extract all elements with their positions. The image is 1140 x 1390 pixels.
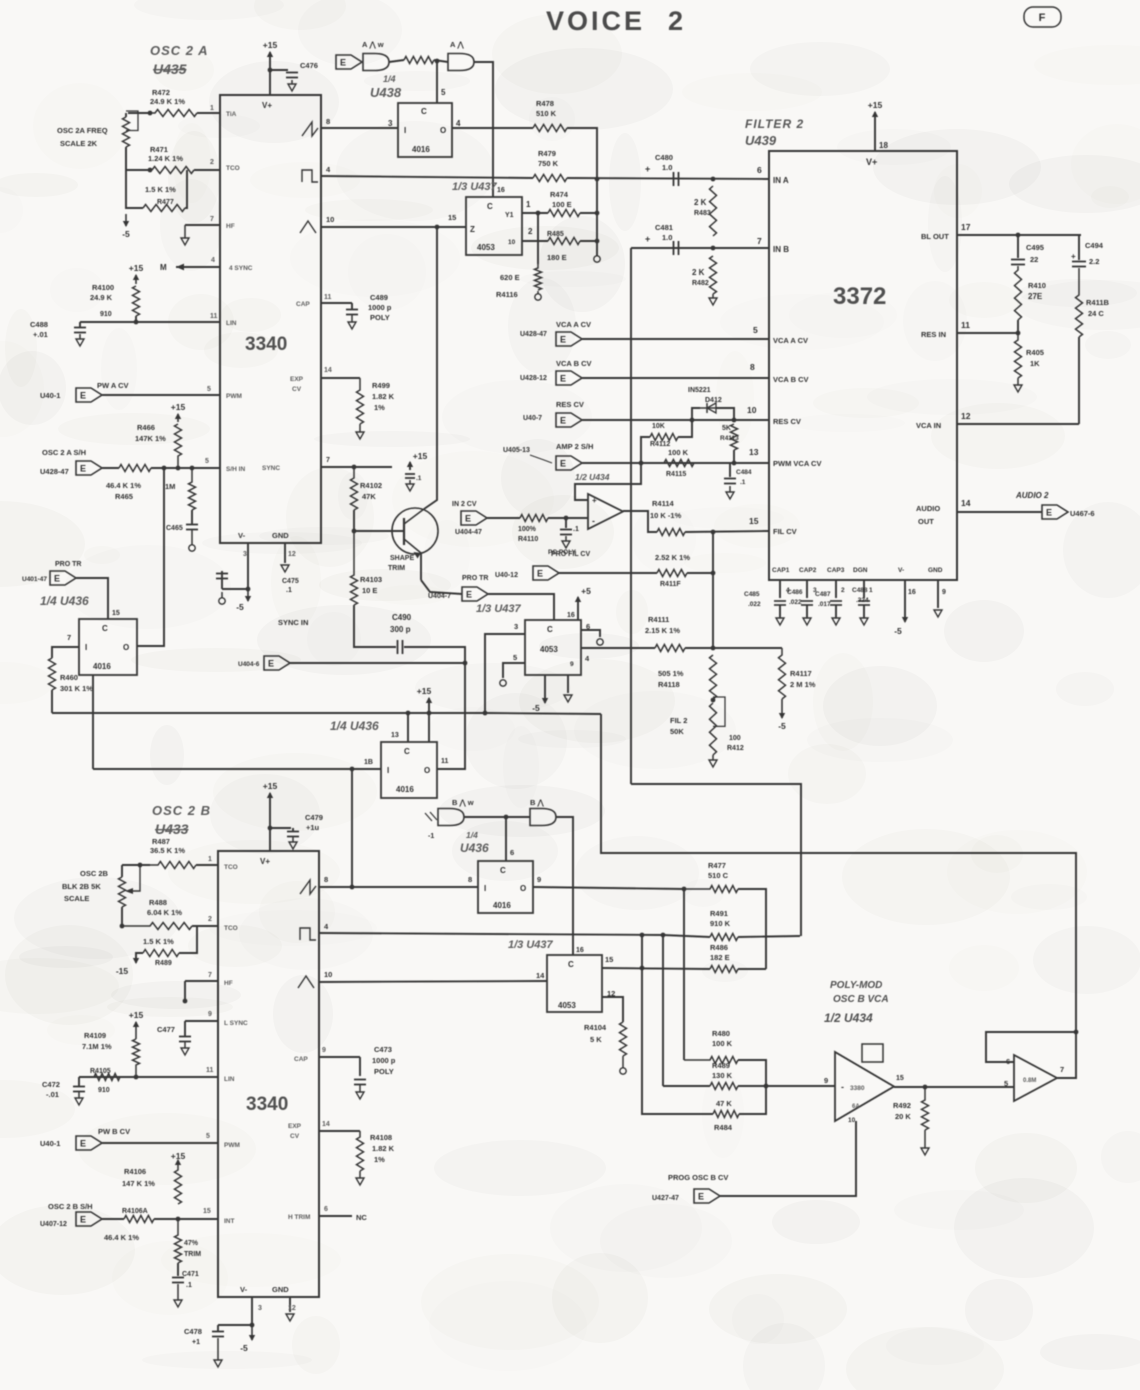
svg-text:4: 4 (786, 587, 790, 594)
svg-text:R4106: R4106 (124, 1167, 146, 1176)
svg-text:PRO TR: PRO TR (462, 575, 488, 582)
svg-text:E: E (560, 374, 566, 384)
wire 4053b out (581, 647, 655, 649)
sawtooth glyph b (300, 880, 316, 894)
svg-text:R480: R480 (712, 1029, 730, 1038)
label 1/4 U438 a (383, 74, 396, 84)
wire IN A line (567, 178, 769, 179)
label C476 (300, 61, 318, 70)
label R4105 value (98, 1087, 110, 1094)
wire 3372 Vminus pin (904, 580, 906, 618)
wire R4102 bottom (353, 510, 355, 531)
junction gate cd (504, 815, 509, 820)
wire V- b to C478 (218, 1324, 252, 1326)
svg-text:RES CV: RES CV (773, 417, 801, 426)
connector PW B CV (76, 1136, 102, 1150)
label R4103 (360, 575, 382, 584)
svg-text:U40-7: U40-7 (523, 415, 542, 422)
svg-text:2.15 K 1%: 2.15 K 1% (645, 626, 680, 635)
svg-text:R4104: R4104 (584, 1023, 607, 1032)
svg-text:EXP: EXP (288, 1123, 302, 1130)
svg-text:1/2 U434: 1/2 U434 (575, 472, 610, 482)
svg-text:C478: C478 (184, 1327, 202, 1336)
svg-text:.1: .1 (740, 479, 746, 486)
svg-text:5K: 5K (722, 425, 731, 432)
label FILTER 2 (745, 117, 804, 131)
label AUDIO 2 (1015, 491, 1049, 500)
svg-text:18: 18 (879, 141, 888, 150)
label PW B CV (98, 1127, 130, 1136)
svg-text:1.5 K 1%: 1.5 K 1% (143, 937, 174, 946)
label C494 (1085, 241, 1104, 250)
svg-text:S/H IN: S/H IN (226, 466, 245, 473)
wire trimpot bottom to TCO row (126, 147, 150, 170)
svg-text:3380: 3380 (850, 1085, 865, 1092)
svg-text:U433: U433 (155, 821, 189, 837)
label R4114 (652, 499, 675, 508)
wire diode loop (692, 408, 700, 420)
svg-text:C479: C479 (305, 813, 323, 822)
svg-text:PRO FIL CV: PRO FIL CV (551, 551, 590, 558)
wire audio out (957, 511, 1042, 513)
pin 14 4053c (536, 971, 545, 980)
wire to C476 (270, 69, 288, 71)
ground below C485 (776, 618, 784, 625)
wire opamp1 out (894, 1086, 1014, 1088)
pin 11 of U433 (206, 1067, 214, 1074)
label NC (356, 1213, 367, 1222)
pin 7 U436a (67, 633, 71, 642)
label R492 value (895, 1112, 911, 1121)
wire S/H b lead (102, 1218, 124, 1220)
svg-text:VOICE: VOICE (546, 6, 645, 36)
pin 4 4053b (585, 654, 590, 663)
svg-text:9: 9 (208, 1011, 212, 1018)
wire R471 to pin2 (194, 169, 220, 171)
wire 4053b pin6 stub (581, 630, 600, 637)
label R412 value (729, 735, 741, 742)
svg-text:OSC B VCA: OSC B VCA (833, 994, 889, 1005)
svg-text:R482: R482 (692, 280, 709, 287)
svg-text:R484: R484 (714, 1123, 733, 1132)
wire R487 left leg (122, 864, 150, 866)
wire follower out (623, 511, 657, 532)
svg-text:5: 5 (441, 88, 446, 97)
svg-text:10K: 10K (652, 423, 665, 430)
resistor R488b (122, 923, 192, 930)
capacitor C488 (74, 328, 86, 333)
pin 3 of U433 (258, 1305, 262, 1312)
svg-text:OUT: OUT (918, 517, 934, 526)
capacitor C477 (179, 1037, 191, 1042)
svg-text:12: 12 (961, 411, 971, 421)
svg-text:4: 4 (211, 257, 215, 264)
label PW A CV (97, 381, 129, 390)
label C478 (184, 1327, 202, 1336)
capacitor C465 (186, 525, 198, 530)
svg-text:U40-12: U40-12 (495, 572, 518, 579)
svg-text:U428-47: U428-47 (40, 467, 69, 476)
resistor R475 (404, 57, 434, 64)
connector PRO FIL CV (533, 566, 559, 580)
ground 4053b pin5 (500, 680, 506, 686)
resistor R460 (49, 658, 56, 690)
label R4117 (790, 669, 812, 678)
svg-text:24 C: 24 C (1088, 309, 1104, 318)
label C494 plus (1071, 252, 1076, 261)
svg-text:4016: 4016 (93, 662, 111, 671)
label C495 (1026, 243, 1044, 252)
wire R489b left (136, 953, 143, 960)
wire PW A CV (102, 394, 220, 396)
wire CAP b pin (319, 1056, 360, 1058)
svg-text:R410: R410 (1028, 281, 1046, 290)
label R460 (60, 673, 78, 682)
svg-text:VCA B CV: VCA B CV (773, 375, 809, 384)
wire HF b stub (184, 981, 186, 999)
pin 13 U436b (391, 732, 399, 739)
junction 573 (711, 571, 716, 576)
ground below C483 (562, 536, 570, 548)
svg-text:PW B CV: PW B CV (98, 1127, 130, 1136)
ground below C488 (76, 334, 84, 346)
svg-text:15: 15 (112, 610, 120, 617)
label R485 (547, 231, 564, 238)
label R484 (714, 1123, 733, 1132)
power +15 above R4106 (171, 1151, 186, 1165)
label SHAPE (390, 555, 414, 562)
svg-text:17: 17 (961, 222, 971, 232)
wire poly route down (631, 784, 801, 936)
label C481 plus (645, 234, 650, 244)
svg-text:I: I (484, 884, 486, 893)
wire R4117b to node (687, 572, 713, 574)
pin 11 (961, 320, 970, 330)
svg-text:910: 910 (98, 1087, 110, 1094)
capacitor C488b (858, 601, 870, 605)
svg-text:R477: R477 (157, 199, 174, 206)
pin 5 S/H (205, 458, 209, 465)
resistor R4117b (657, 570, 687, 577)
wire to opamp1 (738, 1085, 835, 1087)
pin4 label (786, 587, 790, 594)
wire follower fb (575, 463, 641, 500)
wire GND pin down (284, 543, 286, 563)
label OSC 2B S/H (48, 1202, 93, 1211)
label B saw 2 (530, 798, 545, 807)
label 1/2 U434 (824, 1011, 873, 1025)
wire IN B vertical (630, 248, 632, 784)
svg-text:A ⋀ w: A ⋀ w (362, 40, 384, 49)
svg-text:10: 10 (747, 405, 757, 415)
svg-text:E: E (80, 1139, 86, 1149)
ground c482 (406, 480, 414, 491)
label osc2b scale b (62, 882, 101, 891)
svg-text:14: 14 (322, 1121, 330, 1128)
wire square b line (319, 933, 663, 935)
svg-text:7: 7 (208, 972, 212, 979)
label C489 (370, 293, 388, 302)
capacitor C472 (73, 1087, 85, 1092)
svg-text:PW A CV: PW A CV (97, 381, 129, 390)
svg-text:PROG OSC B CV: PROG OSC B CV (668, 1173, 728, 1182)
junction R4109 LIN (134, 1075, 139, 1080)
pin 7 of U433 (208, 972, 212, 979)
junction TCO2 row (120, 924, 125, 929)
label R4100 (92, 283, 114, 292)
label R479 value (538, 159, 559, 168)
junction amp sh b (732, 461, 737, 466)
wire R488b to pin2 (192, 925, 218, 927)
svg-text:-: - (841, 1082, 844, 1092)
svg-text:+15: +15 (129, 263, 144, 273)
wire R474 to node (580, 212, 597, 214)
ground at GND b (286, 1314, 294, 1321)
svg-text:1: 1 (208, 856, 212, 863)
svg-text:B ⋀: B ⋀ (530, 798, 545, 807)
svg-text:2: 2 (210, 159, 214, 166)
svg-text:U436: U436 (460, 841, 489, 855)
label C481 value (662, 233, 672, 242)
connector osc A mix (336, 55, 362, 69)
svg-text:TiA: TiA (226, 111, 237, 118)
svg-text:4053: 4053 (558, 1001, 576, 1010)
label R485 value (547, 253, 567, 262)
svg-text:100%: 100% (518, 526, 537, 533)
label B saw w (452, 798, 474, 807)
connector RES CV (556, 413, 582, 427)
resistor R4114 (657, 529, 685, 536)
svg-text:+5: +5 (581, 586, 591, 596)
capacitor C479 (287, 832, 299, 837)
label 1/3 U437 c (508, 939, 554, 951)
label C477 (157, 1025, 175, 1034)
svg-text:C465: C465 (166, 525, 183, 532)
junction blout a (1016, 233, 1021, 238)
label R4106 (124, 1167, 146, 1176)
wire bus to poly route (601, 714, 1076, 1032)
svg-text:M: M (160, 263, 167, 272)
wire 4053b pin8 (567, 675, 569, 693)
label R4115 value (668, 448, 689, 457)
wire r4112 left (641, 437, 650, 464)
svg-text:16: 16 (908, 589, 916, 596)
svg-text:1M: 1M (165, 482, 175, 491)
label C482 value (416, 475, 422, 482)
svg-text:15: 15 (203, 1208, 211, 1215)
svg-text:C485: C485 (744, 591, 760, 598)
svg-text:13: 13 (391, 732, 399, 739)
wire C488 stub (79, 322, 81, 327)
wire shaper p15 (409, 462, 411, 470)
svg-text:OSC 2 A S/H: OSC 2 A S/H (42, 448, 86, 457)
compensation box U434b (862, 1044, 883, 1062)
pin 18 U436b (364, 759, 373, 766)
connector IN 2 CV (461, 511, 487, 525)
svg-text:IN A: IN A (773, 176, 789, 185)
label R405 (1026, 348, 1044, 357)
resistor R466 (175, 424, 182, 468)
svg-text:R4115: R4115 (666, 471, 686, 478)
label R471 (150, 145, 168, 154)
gate U436 drive c (438, 809, 464, 826)
label R492 (893, 1101, 911, 1110)
svg-text:7: 7 (1060, 1065, 1064, 1074)
label R411B (1086, 298, 1110, 307)
junction TCO row (148, 168, 153, 173)
svg-text:9: 9 (570, 661, 574, 668)
svg-text:.1: .1 (186, 1282, 192, 1289)
wire GND b down (289, 1297, 291, 1312)
svg-text:14: 14 (324, 367, 332, 374)
power +15 for U439 (868, 100, 883, 117)
svg-text:+15: +15 (263, 40, 278, 50)
svg-text:I: I (387, 766, 389, 775)
wire trimpot top (125, 113, 127, 117)
svg-text:R489: R489 (155, 960, 172, 967)
svg-text:.324: .324 (856, 597, 869, 604)
pin 6 (757, 165, 762, 175)
wire emitter down (420, 553, 422, 580)
pin 2 of U433 (208, 916, 212, 923)
svg-text:H TRIM: H TRIM (288, 1214, 310, 1221)
svg-text:R4103: R4103 (360, 575, 382, 584)
wire r411b down (1078, 337, 1080, 424)
svg-text:3: 3 (388, 119, 393, 128)
capacitor C481 (674, 241, 679, 255)
label C471 value (186, 1282, 192, 1289)
label U404-7 ref b (428, 593, 451, 600)
svg-text:-1: -1 (428, 833, 434, 840)
resistor R482 (710, 256, 717, 294)
ground below C478 (214, 1338, 222, 1367)
resistor R471 (152, 167, 194, 174)
wire +15 to U436b (428, 698, 430, 742)
junction fil cv (711, 530, 716, 535)
wire R489b loop (179, 926, 197, 953)
pin 4 sq (326, 165, 331, 174)
wire gate c out (464, 816, 530, 818)
capacitor C494 (1072, 262, 1086, 267)
label R499 pct (374, 403, 385, 412)
svg-text:.022: .022 (748, 601, 761, 608)
resistor R411B (1076, 268, 1083, 337)
label OSC 2A trim (57, 126, 108, 135)
svg-text:750 K: 750 K (538, 159, 559, 168)
wire 3372 bottom pin 2 (806, 580, 808, 598)
svg-text:3372: 3372 (833, 283, 886, 310)
label R410 value (1028, 292, 1043, 301)
svg-text:C: C (421, 107, 427, 116)
svg-text:910: 910 (100, 311, 112, 318)
svg-text:FIL 2: FIL 2 (670, 716, 687, 725)
label R465 value (106, 481, 141, 490)
svg-text:U428-47: U428-47 (520, 331, 547, 338)
pin 5 of U433 (206, 1133, 210, 1140)
svg-text:R411F: R411F (660, 581, 681, 588)
svg-text:OSC 2 A: OSC 2 A (150, 43, 209, 58)
label C479 value (306, 823, 320, 832)
pin 15 4053a (448, 213, 456, 222)
pin 9 cap b (322, 1047, 326, 1054)
junction shb (176, 1217, 181, 1222)
svg-text:510 K: 510 K (536, 109, 557, 118)
svg-text:FIL CV: FIL CV (773, 527, 797, 536)
svg-text:4053: 4053 (540, 645, 558, 654)
svg-text:+15: +15 (263, 781, 278, 791)
svg-text:U438: U438 (370, 85, 402, 100)
label R4117b value (655, 553, 690, 562)
wire S/H to pin (151, 467, 220, 469)
connector VCA B CV (556, 371, 582, 385)
pin 15 opamp (896, 1075, 904, 1082)
svg-text:OSC 2 B S/H: OSC 2 B S/H (48, 1202, 93, 1211)
svg-text:C494: C494 (1085, 241, 1104, 250)
label C488 name (30, 320, 48, 329)
svg-text:CAP: CAP (294, 1056, 308, 1063)
pin 12 4053c (607, 989, 615, 998)
svg-text:E: E (80, 391, 86, 401)
capacitor C487 (830, 601, 842, 605)
diode D412 (700, 403, 716, 413)
svg-text:IN5221: IN5221 (688, 387, 711, 394)
wire RES CV (582, 419, 769, 421)
svg-text:2.52 K 1%: 2.52 K 1% (655, 553, 690, 562)
label AMP 2 S/H (556, 442, 593, 451)
svg-text:E: E (466, 590, 472, 600)
svg-text:B ⋀ w: B ⋀ w (452, 798, 474, 807)
svg-text:R405: R405 (1026, 348, 1044, 357)
label OSC 2A trim 2 (60, 139, 98, 148)
pin 14 (961, 498, 971, 508)
svg-text:10: 10 (326, 215, 334, 224)
capacitor C476 (286, 73, 298, 78)
op-amp U434c (1014, 1055, 1057, 1101)
pin 8 (750, 362, 755, 372)
label C485 (744, 591, 760, 598)
junction S/H b (176, 466, 181, 471)
wire pro fil lead (559, 572, 657, 574)
svg-text:510 C: 510 C (708, 871, 729, 880)
label C495 value (1030, 255, 1038, 264)
wire c479 stub (292, 828, 294, 831)
analog switch U436a 4016 (79, 619, 137, 675)
label R4115 (666, 471, 686, 478)
label R4117 value (790, 680, 816, 689)
svg-text:C471: C471 (182, 1271, 199, 1278)
junction tri tap (435, 225, 440, 230)
label R489b value (143, 937, 174, 946)
label C488 value (33, 330, 48, 339)
svg-text:R4118: R4118 (658, 680, 680, 689)
label OSC B VCA (833, 994, 889, 1005)
wire V- pin down (247, 543, 249, 589)
svg-text:6.04 K 1%: 6.04 K 1% (147, 908, 182, 917)
pin 7 sync (326, 457, 330, 464)
pin 2 4053a (528, 227, 533, 236)
junction bus 408 (406, 711, 411, 716)
svg-text:GND: GND (928, 567, 943, 574)
svg-text:-5: -5 (240, 1343, 248, 1353)
svg-text:U40-1: U40-1 (40, 391, 60, 400)
label C481 (655, 223, 673, 232)
resistor R499 (357, 378, 364, 424)
svg-text:V+: V+ (866, 157, 877, 167)
label C475 value (286, 587, 292, 594)
wire AMP 2 S/H (582, 462, 769, 464)
wire c472 stub (78, 1077, 80, 1086)
resistor R4115 (664, 460, 694, 467)
